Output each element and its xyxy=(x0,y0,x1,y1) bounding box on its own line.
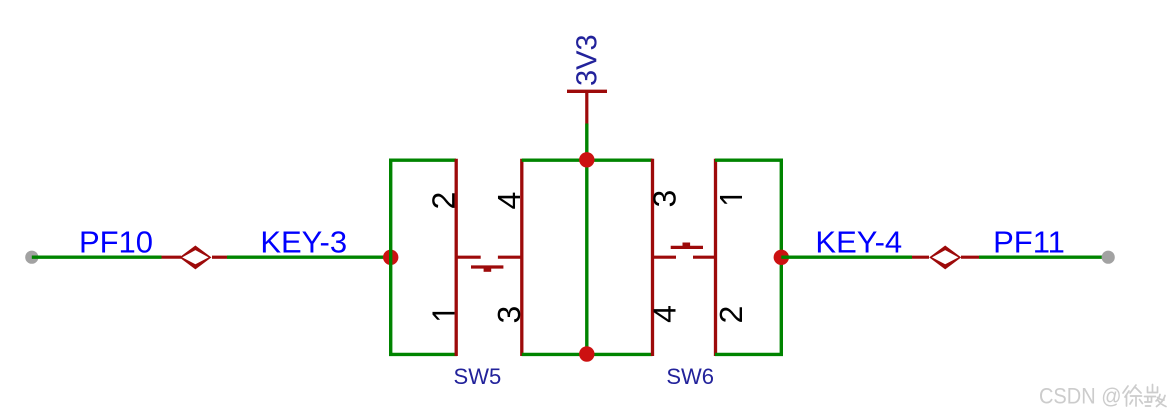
power symbol 3V3 bar xyxy=(567,90,607,93)
pin number 2 (SW5) xyxy=(432,193,454,208)
power symbol 3V3 stem xyxy=(585,91,588,123)
switch SW6 right pin column (pins 1,2) xyxy=(714,159,717,356)
no-ERC directive stub right (right lead) xyxy=(961,256,979,259)
switch SW5 left pin column (pins 2,1) xyxy=(455,159,458,356)
switch SW5 actuator bar xyxy=(471,265,503,268)
port dot right (PF11 endpoint) xyxy=(1102,251,1115,264)
pin number 1 (SW5) xyxy=(432,312,454,320)
pin number 3 (SW5) xyxy=(498,307,521,322)
switch SW5 contact left stub xyxy=(456,256,481,259)
switch SW6 contact left stub xyxy=(653,256,677,259)
switch SW6 actuator nub xyxy=(683,243,691,249)
wire middle bottom edge xyxy=(522,353,653,356)
switch SW5 actuator nub xyxy=(484,266,492,272)
junction node top (3V3 rail) xyxy=(579,152,594,167)
watermark CJK glyph xu xyxy=(1123,385,1143,406)
no-ERC directive stub left (left lead) xyxy=(162,256,182,259)
no-ERC directive stub left (right lead) xyxy=(212,256,227,259)
no-ERC directive diamond left xyxy=(179,246,211,270)
pin number 4 (SW6) xyxy=(653,306,675,322)
wire KEY-3 segment xyxy=(227,256,391,259)
junction node KEY-3 xyxy=(383,250,398,265)
power net label 3V3 xyxy=(576,36,597,85)
svg-text:SW5: SW5 xyxy=(454,364,502,389)
pin number 4 (SW5) xyxy=(498,193,520,209)
junction node bottom xyxy=(579,346,594,361)
no-ERC directive diamond right xyxy=(929,246,961,270)
switch SW6 left pin column (pins 3,4) xyxy=(651,159,654,356)
pin number 2 (SW6) xyxy=(720,307,742,322)
svg-text:KEY-4: KEY-4 xyxy=(815,225,902,260)
svg-text:PF11: PF11 xyxy=(993,225,1065,260)
junction node KEY-4 xyxy=(774,250,789,265)
svg-text:PF10: PF10 xyxy=(79,225,153,260)
watermark CJK glyph qian xyxy=(1145,385,1167,407)
svg-text:KEY-3: KEY-3 xyxy=(260,225,347,260)
no-ERC directive stub right (left lead) xyxy=(912,256,929,259)
wire KEY-4 segment xyxy=(781,256,912,259)
switch SW5 right pin column (pins 4,3) xyxy=(520,159,523,356)
svg-text:SW6: SW6 xyxy=(666,364,714,389)
wire PF10 left segment xyxy=(32,256,162,259)
wire middle top (3V3 rail top edge) xyxy=(522,158,653,161)
switch SW6 actuator bar xyxy=(671,246,703,249)
wire 3V3 center vertical xyxy=(585,124,588,355)
pin number 1 (SW6) xyxy=(720,196,742,204)
port dot left (PF10 endpoint) xyxy=(25,251,38,264)
wire right loop (top/right/bottom of SW6 wiring box) xyxy=(715,160,781,354)
switch SW5 contact right stub xyxy=(498,256,522,259)
pin number 3 (SW6) xyxy=(653,191,676,206)
svg-text:CSDN @: CSDN @ xyxy=(1039,384,1122,409)
wire left loop (left/top/bottom of SW5 wiring box) xyxy=(391,160,457,354)
wire PF11 segment xyxy=(979,256,1108,259)
switch SW6 contact right stub xyxy=(693,256,716,259)
